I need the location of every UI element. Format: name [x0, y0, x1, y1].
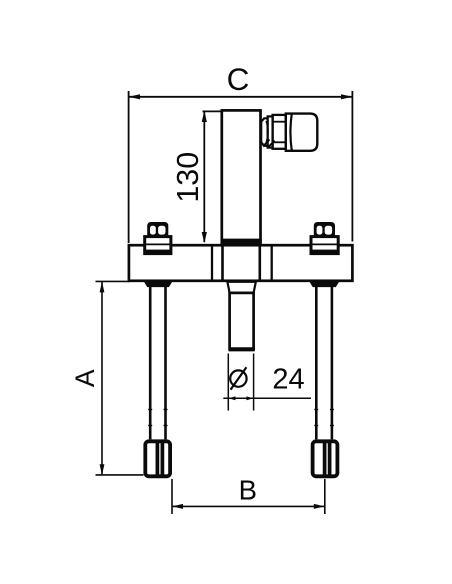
left grip handle [145, 441, 170, 476]
dimension A top extension line [96, 280, 130, 282]
dimension 130 line [203, 112, 205, 242]
svg-text:B: B [239, 475, 257, 506]
ram collar trapezoid [227, 282, 255, 293]
dimension D24 right extension line [253, 354, 255, 411]
crossbar cylinder right wall line [258, 246, 261, 280]
right nut hex window 2 [325, 226, 332, 235]
dimension A line [101, 282, 103, 475]
dimension B line [172, 505, 325, 507]
right nut washer bottom band [310, 250, 339, 254]
right grip handle [313, 441, 338, 476]
coupler nut bottom facet line [273, 141, 286, 143]
left nut washer inner line [145, 243, 171, 245]
dimension C left extension line [128, 91, 130, 243]
svg-text:A: A [70, 369, 100, 387]
left grip inner bar 1 [156, 444, 160, 475]
ram bottom thick edge [229, 347, 255, 351]
dimension C left arrow [129, 94, 141, 99]
right nut hex window 1 [317, 226, 323, 235]
dimension C right arrow [341, 94, 352, 99]
dimension 130 top arrow [202, 111, 207, 122]
crossbar beam [129, 245, 353, 281]
left nut hex on crossbar [147, 222, 168, 237]
right nut washer block [311, 237, 338, 254]
crossbar hub right boss line [271, 246, 273, 280]
right leg collar under crossbar [310, 282, 338, 287]
left nut washer bottom band [144, 250, 172, 254]
right nut washer inner line [311, 243, 338, 245]
left leg rod notch lower [148, 425, 152, 427]
coupler cap flange line [290, 114, 291, 151]
left nut hex window 1 [150, 226, 156, 235]
coupler nut bottom facet diagonal 1 [263, 140, 270, 147]
coupler cap sleeve [286, 114, 318, 151]
dimension A bottom arrow [100, 464, 105, 475]
right grip inner bar 2 [328, 444, 332, 475]
right leg rod notch upper [314, 409, 318, 411]
right nut hex on crossbar [314, 222, 335, 237]
dimension D24 line [223, 397, 311, 399]
coupler neck collar [261, 118, 267, 146]
left grip inner bar 2 [161, 444, 165, 475]
svg-text:C: C [227, 61, 250, 97]
dimension B left extension line [171, 479, 173, 514]
dimension B right extension line [324, 479, 326, 514]
dimension A top arrow [100, 281, 105, 292]
dimension D24 left arrow [228, 396, 235, 400]
crossbar cylinder left wall line [221, 246, 224, 280]
right leg rod notch lower [314, 425, 318, 427]
left nut washer block [145, 237, 171, 254]
coupler band [268, 116, 273, 147]
ram rod [230, 293, 254, 349]
left leg rod right edge [164, 286, 167, 439]
left leg collar under crossbar [145, 282, 172, 287]
dimension B left arrow [172, 504, 183, 509]
dimension A bottom extension line [96, 474, 144, 476]
dimension C line [129, 96, 353, 98]
right leg rod left edge [315, 286, 318, 439]
left nut hex window 2 [158, 226, 165, 235]
dimension D24 left extension line [227, 354, 229, 411]
dimension B right arrow [314, 504, 325, 509]
right grip inner bar 1 [323, 444, 327, 475]
crossbar hub left boss line [211, 246, 213, 280]
svg-text:130: 130 [171, 152, 205, 203]
dimension 130 bottom arrow [202, 232, 207, 243]
diameter symbol slash [231, 367, 247, 389]
left leg rod notch upper [148, 409, 152, 411]
coupler hex nut [273, 115, 286, 149]
coupler nut top facet line [273, 121, 286, 123]
cylinder body [222, 110, 261, 242]
left leg rod left edge [149, 286, 152, 439]
dimension D24 right arrow [246, 396, 253, 400]
dimension 130 top extension line [203, 110, 221, 112]
dimension C right extension line [351, 91, 353, 242]
coupler nut bottom facet diagonal 2 [268, 141, 275, 148]
svg-text:24: 24 [272, 364, 304, 396]
cylinder bottom thick edge [221, 239, 262, 243]
diameter symbol circle [230, 370, 246, 386]
right leg rod right edge [331, 286, 334, 439]
coupler neck facet curve [266, 121, 268, 143]
